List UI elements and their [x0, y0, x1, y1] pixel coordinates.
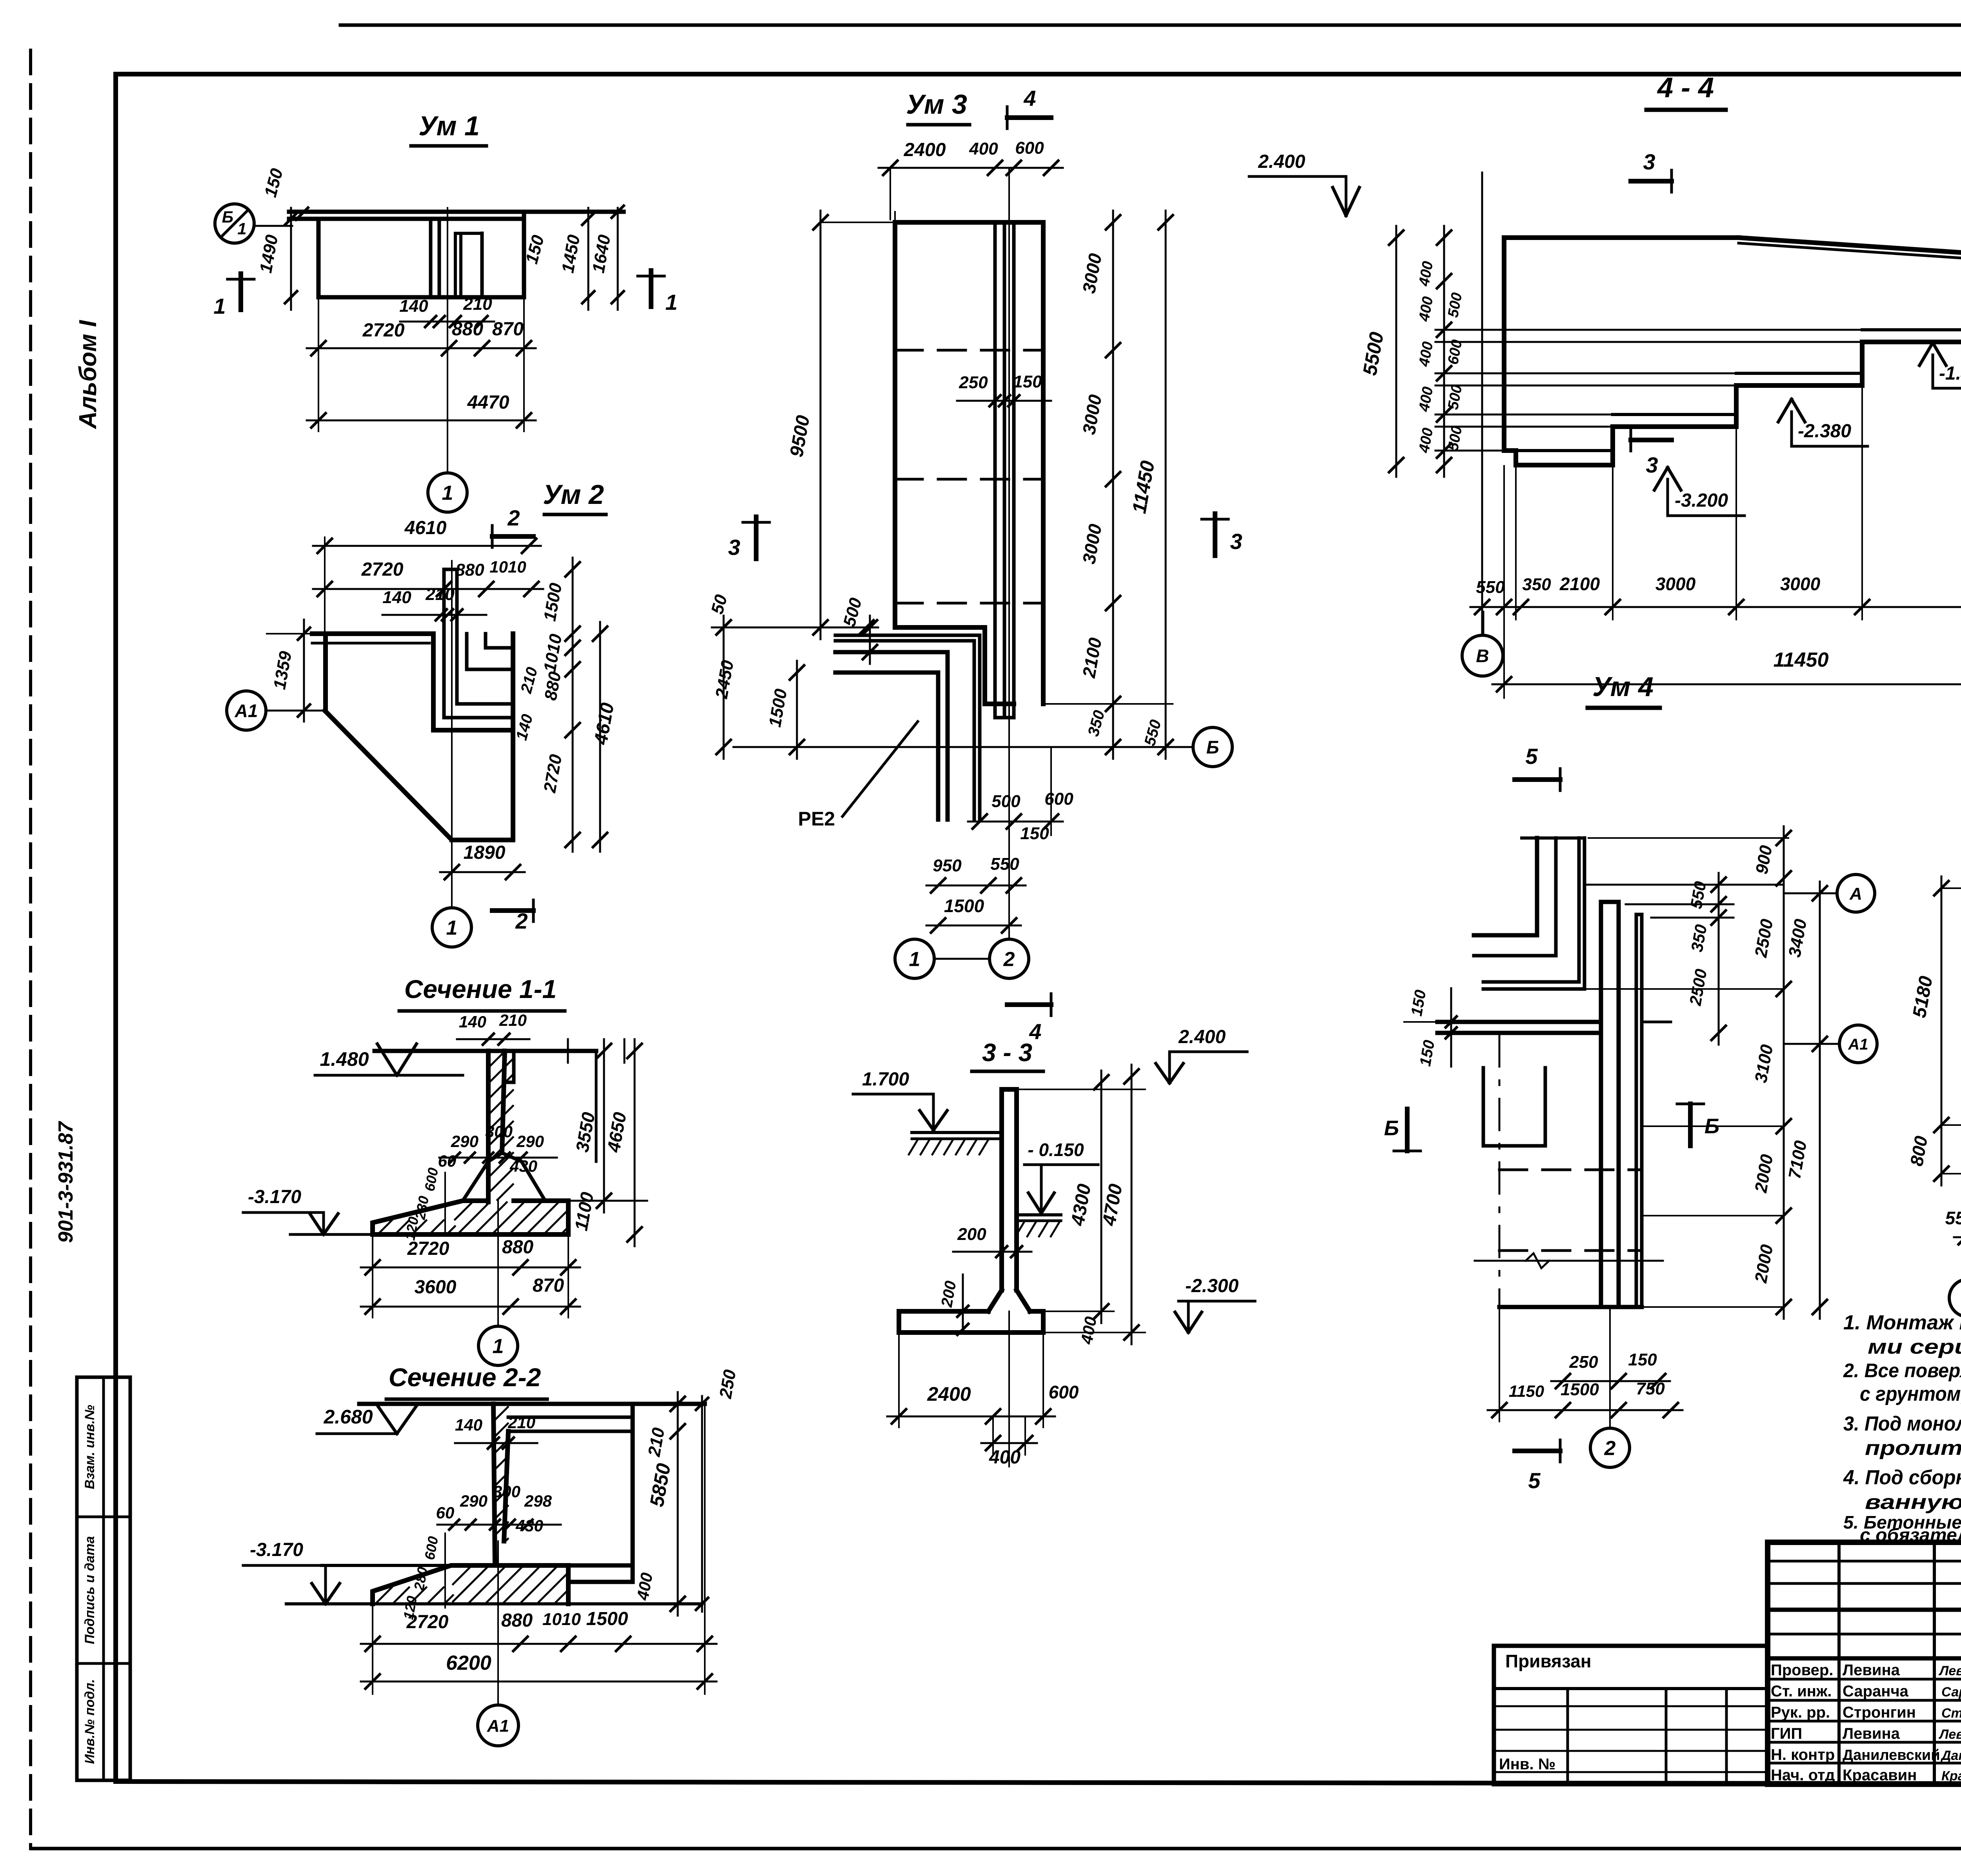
svg-text:11450: 11450 — [1774, 649, 1829, 671]
svg-text:6200: 6200 — [446, 1652, 491, 1674]
view Um1: section mark 1 right — [649, 271, 653, 307]
svg-text:3: 3 — [728, 535, 740, 560]
view Um2: axis line 1 vertical — [451, 561, 453, 908]
svg-text:2100: 2100 — [1559, 574, 1600, 594]
svg-text:210: 210 — [463, 294, 492, 314]
section 3-3: ground line left hatched — [912, 1131, 1001, 1134]
svg-text:Альбом I: Альбом I — [75, 320, 102, 430]
svg-text:1: 1 — [665, 290, 677, 314]
svg-text:60: 60 — [436, 1503, 455, 1522]
view Um3: inner wall lines — [993, 222, 997, 718]
svg-text:150: 150 — [1628, 1350, 1657, 1369]
svg-text:Крас: Крас — [1941, 1769, 1961, 1783]
section 1-1: wall top line — [375, 1049, 596, 1053]
view Um1: inner formwork verticals — [429, 219, 433, 297]
svg-text:5: 5 — [1525, 744, 1538, 769]
svg-text:А: А — [1849, 884, 1862, 903]
view Um2: inner corner notch — [431, 634, 436, 730]
svg-text:2: 2 — [1604, 1437, 1616, 1460]
svg-text:870: 870 — [533, 1275, 564, 1296]
svg-text:1890: 1890 — [464, 842, 506, 863]
svg-text:В: В — [1476, 646, 1489, 666]
svg-text:290: 290 — [516, 1132, 544, 1151]
svg-text:-2.300: -2.300 — [1185, 1276, 1239, 1296]
view Um4: axis circle 2 bottom — [1609, 1308, 1611, 1427]
view Um4: lower left wall rectangle — [1482, 1068, 1485, 1146]
svg-text:3600: 3600 — [415, 1277, 457, 1298]
svg-text:Дан: Дан — [1940, 1748, 1961, 1763]
svg-text:Рук. рр.: Рук. рр. — [1771, 1704, 1830, 1721]
svg-text:1500: 1500 — [586, 1609, 628, 1629]
view Um2: left edge diagonal and bottom — [323, 634, 328, 711]
svg-text:2720: 2720 — [361, 559, 404, 580]
section 4-4: main profile top and slope — [1504, 235, 1739, 240]
svg-text:Саран: Саран — [1941, 1685, 1961, 1700]
svg-text:-3.170: -3.170 — [248, 1187, 301, 1207]
page border: bottom outer trim line — [31, 1847, 1961, 1851]
svg-text:1.480: 1.480 — [320, 1048, 369, 1070]
svg-text:Б: Б — [1384, 1116, 1399, 1140]
drawing frame: top line — [116, 72, 1961, 76]
svg-text:Ум 1: Ум 1 — [418, 111, 480, 141]
view Um1: section mark 1 left — [238, 274, 243, 310]
svg-text:4470: 4470 — [467, 392, 509, 413]
section 1-1: wall stem — [486, 1051, 491, 1202]
section 2-2: right wall vertical — [631, 1404, 635, 1582]
title block: staff row lines — [1768, 1678, 1961, 1681]
view Um4: right thin level stubs — [1584, 884, 1784, 886]
page border: left vertical dashed trim line — [29, 50, 32, 1849]
svg-text:2400: 2400 — [904, 140, 946, 160]
page border: top outer trim line — [340, 24, 1961, 27]
view Um4: axis circle B top — [1483, 612, 1484, 634]
section 4-4: step inner double lines — [1516, 449, 1613, 452]
svg-text:3: 3 — [1646, 453, 1658, 477]
section 4-4: slope inner line — [1739, 243, 1961, 270]
svg-text:Левина: Левина — [1843, 1661, 1900, 1679]
svg-text:1010: 1010 — [542, 1610, 581, 1629]
svg-text:290: 290 — [460, 1492, 488, 1510]
svg-text:Левина: Левина — [1938, 1727, 1961, 1742]
svg-text:300: 300 — [485, 1122, 513, 1141]
svg-text:1: 1 — [446, 917, 458, 940]
svg-text:Привязан: Привязан — [1505, 1651, 1592, 1671]
svg-text:Сечение 1-1: Сечение 1-1 — [404, 974, 557, 1003]
svg-text:880: 880 — [452, 319, 483, 340]
section 4-4: section mark 3 bottom — [1631, 438, 1672, 442]
svg-text:550: 550 — [1945, 1208, 1961, 1228]
svg-text:Б: Б — [222, 208, 233, 226]
svg-text:140: 140 — [382, 588, 411, 607]
svg-text:1500: 1500 — [1561, 1380, 1599, 1399]
view Um3: dashed levels — [895, 349, 1043, 352]
view Um4: axis dashed vertical — [1499, 1035, 1501, 1307]
view Um3: corner nested L lines — [835, 635, 980, 820]
section 1-1: back wall line — [595, 1051, 598, 1162]
svg-text:1500: 1500 — [944, 896, 984, 916]
svg-text:880: 880 — [502, 1237, 533, 1258]
view Um4: T junction wall lines — [1437, 1020, 1601, 1024]
svg-text:ванную песчаную подготовку.: ванную песчаную подготовку. — [1865, 1491, 1961, 1514]
svg-text:3000: 3000 — [1655, 574, 1696, 594]
svg-text:3. Под монолитные ж.-б. стены: 3. Под монолитные ж.-б. стены выполнить … — [1843, 1412, 1961, 1435]
section 2-2: footing outline — [373, 1565, 568, 1604]
view Um4: top corner nested lines — [1535, 838, 1539, 935]
svg-text:-3.170: -3.170 — [250, 1540, 303, 1560]
svg-text:2: 2 — [507, 505, 520, 530]
view Um3: corner wall outline turn — [895, 627, 1014, 704]
section 2-2: right block — [568, 1565, 633, 1582]
svg-text:Инв. №: Инв. № — [1499, 1756, 1555, 1773]
svg-text:1150: 1150 — [1509, 1382, 1544, 1400]
svg-text:Ст. инж.: Ст. инж. — [1771, 1683, 1832, 1700]
svg-text:Красавин: Красавин — [1843, 1767, 1917, 1784]
section 1-1: axis line and circle 1 — [497, 1201, 499, 1326]
svg-text:500: 500 — [991, 792, 1021, 811]
svg-text:300: 300 — [493, 1482, 520, 1501]
privyazan table — [1494, 1646, 1768, 1784]
view Um1: axis circle B/1 — [215, 204, 254, 243]
svg-text:600: 600 — [1044, 789, 1073, 809]
section 5-5: axis circles A A1 left — [1837, 874, 1875, 912]
svg-text:пролитого цементным растворо: пролитого цементным раствором. — [1865, 1437, 1961, 1460]
svg-text:5: 5 — [1528, 1468, 1541, 1493]
svg-text:Инв.№ подл.: Инв.№ подл. — [82, 1679, 97, 1764]
svg-text:ми серии 3.002.1-1 вып. О.: ми серии 3.002.1-1 вып. О. — [1868, 1336, 1961, 1358]
svg-text:Нач. отд: Нач. отд — [1771, 1767, 1835, 1784]
section 3-3: ground line right hatched with -0.150 — [1020, 1213, 1061, 1216]
svg-text:2.400: 2.400 — [1178, 1027, 1226, 1047]
view Um3: axis B horizontal line — [733, 746, 1192, 748]
view Um3: wall plan long outline — [893, 222, 897, 627]
title block: upper left grid — [1768, 1560, 1961, 1563]
section 4-4: steps profile — [1504, 342, 1961, 465]
svg-text:298: 298 — [524, 1492, 552, 1510]
view Um3: section mark 4 bottom — [1007, 1002, 1051, 1007]
svg-text:Провер.: Провер. — [1771, 1661, 1833, 1679]
svg-text:880: 880 — [455, 560, 484, 580]
svg-text:2720: 2720 — [407, 1238, 449, 1259]
view Um4: bottom edge — [1499, 1305, 1642, 1309]
left margin attribute table — [77, 1377, 130, 1780]
svg-text:Данилевский: Данилевский — [1843, 1747, 1940, 1763]
svg-text:Сечение 2-2: Сечение 2-2 — [389, 1363, 541, 1392]
svg-text:2: 2 — [1003, 948, 1015, 971]
section 4-4: axis line B vertical — [1481, 173, 1483, 634]
svg-text:Стр: Стр — [1941, 1706, 1961, 1721]
svg-text:2400: 2400 — [927, 1383, 971, 1405]
section 4-4: axis circle B bottom — [1462, 635, 1503, 676]
svg-text:950: 950 — [933, 856, 962, 875]
svg-text:А1: А1 — [1848, 1036, 1868, 1053]
title block: outer border — [1768, 1542, 1961, 1784]
svg-text:А1: А1 — [487, 1716, 509, 1736]
svg-text:Левина: Левина — [1938, 1663, 1961, 1678]
svg-text:А1: А1 — [235, 701, 258, 721]
svg-text:РЕ2: РЕ2 — [798, 808, 835, 830]
svg-text:4 - 4: 4 - 4 — [1657, 72, 1714, 104]
section 1-1: ground line left with elevation -3.170 — [290, 1233, 373, 1236]
section 3-3: footing — [899, 1311, 1043, 1332]
svg-text:1010: 1010 — [489, 558, 526, 576]
svg-text:Подпись и дата: Подпись и дата — [82, 1536, 97, 1644]
svg-text:140: 140 — [455, 1416, 482, 1434]
view Um2: right outer face — [511, 634, 515, 840]
view Um1: axis circle 1 — [428, 473, 467, 512]
svg-text:Левина: Левина — [1843, 1725, 1900, 1742]
svg-text:200: 200 — [957, 1225, 986, 1244]
view Um4: dashed levels — [1499, 1169, 1642, 1171]
svg-text:- 0.150: - 0.150 — [1028, 1140, 1084, 1160]
svg-text:3 - 3: 3 - 3 — [982, 1038, 1032, 1067]
svg-text:1: 1 — [442, 482, 453, 505]
svg-text:Ум 2: Ум 2 — [543, 479, 604, 510]
svg-text:2.400: 2.400 — [1258, 151, 1305, 172]
svg-text:870: 870 — [492, 319, 524, 340]
svg-text:880: 880 — [501, 1610, 533, 1631]
svg-text:901-3-931.87: 901-3-931.87 — [55, 1121, 77, 1243]
view Um4: section mark 5 bottom — [1515, 1449, 1560, 1453]
title block: column lines — [1837, 1542, 1841, 1784]
svg-text:2720: 2720 — [406, 1612, 449, 1632]
section 3-3: wall stem — [999, 1089, 1004, 1290]
svg-text:150: 150 — [1013, 372, 1042, 391]
svg-text:4610: 4610 — [404, 518, 447, 538]
svg-text:Н. контр: Н. контр — [1771, 1746, 1835, 1763]
svg-text:350: 350 — [1522, 575, 1551, 594]
svg-text:210: 210 — [508, 1413, 535, 1432]
svg-text:2. Все поверхности наружных: 2. Все поверхности наружных подпорных ст… — [1843, 1360, 1961, 1382]
section 3-3: stem axis line — [1008, 1311, 1010, 1467]
svg-text:Ум 4: Ум 4 — [1592, 671, 1654, 702]
svg-text:-2.380: -2.380 — [1798, 421, 1851, 442]
view Um3: axis circle B right — [1193, 727, 1232, 767]
view Um3: axis circles 1 and 2 bottom — [895, 939, 934, 978]
svg-text:250: 250 — [959, 373, 988, 392]
section 1-1: footing outline — [373, 1201, 488, 1234]
svg-text:4. Под сборные жел. бет. бло: 4. Под сборные жел. бет. блоки выполнить… — [1843, 1466, 1961, 1489]
view Um2: wall vertical stub — [442, 569, 446, 718]
svg-text:140: 140 — [459, 1013, 486, 1031]
view Um2: wall plan top face — [312, 631, 433, 636]
svg-text:290: 290 — [451, 1132, 478, 1151]
svg-text:1: 1 — [213, 294, 226, 318]
svg-text:4: 4 — [1023, 86, 1036, 111]
svg-text:с грунтом, Обмазать битумно-л: с грунтом, Обмазать битумно-латексным по… — [1860, 1383, 1961, 1405]
svg-text:Ум 3: Ум 3 — [906, 89, 967, 120]
view Um3: axis line 2 vertical — [1008, 169, 1010, 939]
svg-text:3: 3 — [1643, 149, 1655, 174]
svg-text:ГИП: ГИП — [1771, 1725, 1802, 1742]
svg-text:1: 1 — [909, 948, 920, 971]
svg-text:600: 600 — [1015, 138, 1044, 158]
svg-text:1. Монтаж подпорных стен ве: 1. Монтаж подпорных стен вести в соответ… — [1843, 1311, 1961, 1334]
view Um1: axis line 1 vertical — [447, 208, 448, 473]
svg-text:2.680: 2.680 — [323, 1406, 373, 1428]
svg-text:1: 1 — [493, 1335, 504, 1358]
section 2-2: wall stem hatched — [493, 1404, 495, 1564]
svg-text:400: 400 — [969, 139, 998, 158]
svg-text:-1.400: -1.400 — [1939, 363, 1961, 384]
section 4-4: level lines to left axis — [1435, 329, 1862, 331]
svg-text:250: 250 — [1569, 1352, 1598, 1372]
svg-text:1.700: 1.700 — [862, 1069, 909, 1090]
view Um1: wall plan outline — [289, 210, 624, 214]
drawing frame: left line — [113, 74, 118, 1781]
view Um2: nested formwork lines — [444, 716, 513, 720]
view Um3: corner second band — [835, 673, 938, 820]
svg-text:430: 430 — [509, 1157, 537, 1175]
section 2-2: axis line and circle A1 — [497, 1541, 499, 1705]
svg-text:550: 550 — [990, 854, 1019, 874]
drawing frame: bottom line — [116, 1781, 1961, 1784]
svg-text:-3.200: -3.200 — [1675, 490, 1728, 511]
view Um2: axis circle 1 — [432, 908, 471, 947]
svg-text:2720: 2720 — [362, 320, 405, 341]
svg-text:600: 600 — [1049, 1382, 1079, 1402]
view Um2: axis circle A1 — [227, 691, 266, 730]
svg-text:210: 210 — [499, 1011, 527, 1029]
view Um4: main wall verticals — [1599, 902, 1603, 1307]
svg-text:Б: Б — [1206, 737, 1219, 758]
view Um4: section marks B — [1405, 1109, 1410, 1151]
view Um3: section marks 3 — [754, 517, 759, 559]
svg-text:210: 210 — [425, 585, 455, 604]
svg-text:750: 750 — [1636, 1379, 1665, 1398]
section 2-2: top edge lines — [359, 1402, 705, 1406]
svg-text:1: 1 — [237, 220, 246, 238]
svg-text:Взам. инв.№: Взам. инв.№ — [82, 1405, 97, 1489]
svg-text:Стронгин: Стронгин — [1843, 1704, 1916, 1721]
svg-text:3000: 3000 — [1780, 574, 1821, 594]
svg-text:140: 140 — [399, 296, 428, 316]
view Um4: break line — [1475, 1260, 1663, 1262]
svg-text:Саранча: Саранча — [1843, 1683, 1909, 1700]
svg-text:550: 550 — [1476, 578, 1505, 597]
svg-text:3: 3 — [1230, 529, 1242, 554]
